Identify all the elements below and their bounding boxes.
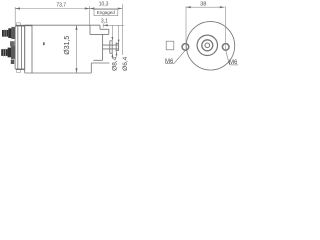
- svg-text:38: 38: [200, 2, 206, 8]
- svg-text:M6: M6: [229, 60, 238, 66]
- svg-text:10,3: 10,3: [99, 1, 109, 7]
- svg-text:Ø6,4: Ø6,4: [122, 56, 129, 70]
- svg-text:Engaged: Engaged: [97, 10, 116, 15]
- svg-text:73,7: 73,7: [56, 3, 66, 9]
- svg-text:3,1: 3,1: [101, 19, 108, 25]
- svg-text:Ø31,5: Ø31,5: [64, 36, 71, 55]
- svg-text:M6: M6: [165, 59, 174, 65]
- svg-text:Ø8,4: Ø8,4: [111, 56, 118, 70]
